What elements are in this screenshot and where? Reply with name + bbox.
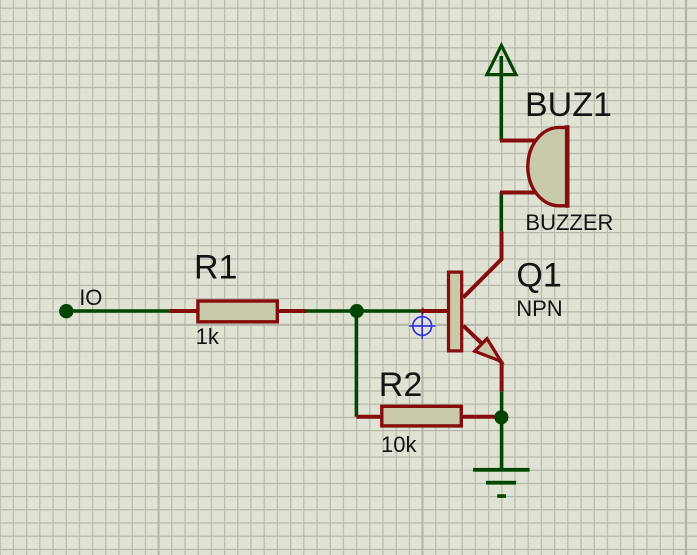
svg-text:NPN: NPN bbox=[516, 296, 562, 321]
svg-text:BUZ1: BUZ1 bbox=[525, 86, 612, 124]
svg-text:Q1: Q1 bbox=[516, 257, 561, 295]
svg-text:IO: IO bbox=[79, 285, 102, 310]
svg-text:R1: R1 bbox=[194, 249, 237, 287]
svg-text:10k: 10k bbox=[381, 432, 417, 457]
svg-text:1k: 1k bbox=[196, 324, 220, 349]
svg-text:BUZZER: BUZZER bbox=[525, 210, 613, 235]
svg-text:R2: R2 bbox=[379, 366, 422, 404]
